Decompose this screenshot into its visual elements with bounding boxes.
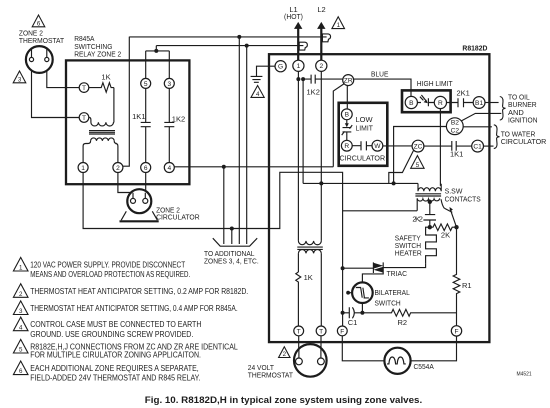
terminal B low limit bbox=[341, 109, 352, 120]
junction dot SSW secondary bbox=[428, 200, 432, 204]
svg-text:FOR MULTIPLE CIRULATOR ZONING: FOR MULTIPLE CIRULATOR ZONING APPLICAITO… bbox=[30, 350, 201, 359]
L1 arrow bbox=[294, 22, 302, 29]
label L1 (HOT) bbox=[284, 5, 303, 21]
svg-text:5: 5 bbox=[144, 81, 148, 88]
wire terminal 2 to circulator bbox=[118, 173, 133, 199]
svg-text:2: 2 bbox=[319, 63, 323, 70]
24 volt thermostat bbox=[294, 344, 327, 377]
terminal 2 bbox=[113, 163, 123, 173]
svg-text:B2: B2 bbox=[451, 120, 459, 127]
relay transformer primary bbox=[89, 117, 114, 126]
svg-text:3: 3 bbox=[18, 76, 22, 83]
note 6 marker bbox=[13, 361, 28, 375]
wire ZC down to safety feed bbox=[389, 150, 414, 183]
brace to water circulator bbox=[494, 125, 500, 149]
label LOW LIMIT bbox=[356, 115, 374, 133]
triac Q1 bbox=[373, 262, 383, 273]
terminal B1 bbox=[473, 97, 485, 109]
svg-text:L2: L2 bbox=[317, 5, 325, 14]
svg-text:2: 2 bbox=[283, 351, 287, 358]
svg-text:2K1: 2K1 bbox=[457, 89, 470, 98]
svg-text:R1: R1 bbox=[462, 281, 472, 290]
label ZONE 2 CIRCULATOR bbox=[156, 206, 200, 222]
resistor 2K bbox=[430, 224, 457, 240]
terminal R high limit bbox=[434, 96, 446, 108]
triangle note marker 6 bbox=[32, 15, 45, 27]
junction dot on ZR return bbox=[222, 165, 226, 169]
wire 1K to transformer primary bbox=[113, 88, 115, 123]
svg-text:LIMIT: LIMIT bbox=[356, 124, 374, 133]
wire F right to C554A bbox=[411, 336, 457, 361]
wire secondary to terminal 2 bbox=[114, 141, 118, 163]
wire zones tap 4 bbox=[246, 46, 248, 244]
terminal 1 R8182D bbox=[293, 60, 304, 71]
svg-text:R8182D: R8182D bbox=[462, 43, 488, 52]
junction dot C1 rail bbox=[341, 311, 345, 315]
bilateral switch bbox=[352, 282, 373, 303]
wire 120V branch lower bbox=[156, 46, 303, 51]
triangle note marker 2 bbox=[279, 347, 290, 358]
relay ZC bbox=[412, 140, 424, 152]
junction dot switch arm bbox=[454, 225, 458, 229]
svg-text:TRIAC: TRIAC bbox=[387, 269, 408, 278]
wire main to C1 cap bbox=[342, 268, 344, 326]
junction dot Y1 B2C2 bbox=[392, 181, 396, 185]
contact 1K1 bbox=[132, 78, 151, 162]
note 1 text bbox=[30, 261, 190, 280]
svg-text:1: 1 bbox=[19, 265, 23, 272]
svg-text:CONTROL CASE MUST BE CONNECTED: CONTROL CASE MUST BE CONNECTED TO EARTH bbox=[30, 320, 201, 329]
heat element C554A bbox=[384, 348, 410, 374]
junction dots terminal 1 bbox=[296, 77, 300, 81]
svg-text:2: 2 bbox=[116, 165, 120, 172]
wire ZR diagonal to zone return bbox=[333, 84, 344, 167]
junction dot main and triac wire bbox=[341, 266, 345, 270]
svg-text:2K2: 2K2 bbox=[412, 215, 423, 224]
wire terminal 6 to circulator bbox=[145, 173, 147, 199]
note 5 text bbox=[30, 342, 238, 359]
relay transformer core bbox=[89, 131, 115, 134]
contact 1K2 bbox=[164, 78, 185, 162]
wire terminal 5 feed bbox=[146, 51, 170, 79]
low limit box bbox=[339, 103, 388, 166]
brace to oil burner bbox=[500, 97, 506, 121]
svg-text:IGNITION: IGNITION bbox=[508, 116, 538, 125]
svg-text:Fig. 10. R8182D,H in typical z: Fig. 10. R8182D,H in typical zone system… bbox=[145, 395, 422, 406]
terminal W low limit bbox=[372, 140, 383, 151]
svg-text:2: 2 bbox=[19, 291, 23, 298]
svg-text:3: 3 bbox=[19, 308, 23, 315]
terminal F right bbox=[451, 326, 461, 336]
resistor R1 bbox=[453, 227, 471, 326]
svg-text:MEANS AND OVERLOAD PROTECTION: MEANS AND OVERLOAD PROTECTION AS REQUIRE… bbox=[30, 270, 190, 279]
wire zones tap 1 bbox=[223, 167, 225, 244]
wire secondary right leg bbox=[320, 253, 322, 326]
note 6 text bbox=[30, 364, 200, 383]
relay transformer secondary bbox=[91, 138, 115, 141]
label TO OIL BURNER AND IGNITION bbox=[508, 93, 538, 125]
zone 2 thermostat bbox=[26, 46, 53, 73]
junction dot branch upper bbox=[237, 35, 241, 39]
disconnect plug on L1 bbox=[299, 42, 307, 50]
svg-text:CONTACTS: CONTACTS bbox=[445, 194, 481, 203]
wire SSW secondary left to loop bbox=[416, 199, 418, 211]
triangle note marker 3 bbox=[13, 71, 26, 83]
svg-text:ZC: ZC bbox=[414, 144, 423, 151]
transformer 24V secondary bbox=[298, 250, 321, 254]
terminal T lower bbox=[79, 113, 89, 123]
L2 arrow bbox=[317, 22, 325, 29]
wire C1 to water circulator bbox=[484, 145, 494, 147]
wire secondary to terminal 1 bbox=[83, 141, 91, 163]
svg-text:1: 1 bbox=[81, 165, 85, 172]
label TO ADDITIONAL ZONES 3 4 ETC bbox=[204, 249, 259, 265]
label R845A SWITCHING RELAY ZONE 2 bbox=[74, 34, 121, 59]
note 4 marker bbox=[13, 317, 28, 331]
svg-text:THERMOSTAT HEAT ANTICIPATOR SE: THERMOSTAT HEAT ANTICIPATOR SETTING, 0.4… bbox=[30, 304, 238, 313]
svg-text:SWITCH: SWITCH bbox=[375, 298, 401, 307]
relay ZR bbox=[343, 75, 354, 86]
junction dot bilateral stub bbox=[346, 291, 350, 295]
svg-text:1K1: 1K1 bbox=[132, 112, 145, 121]
wire B2 diagonal to oil burner bbox=[462, 113, 502, 120]
svg-text:4: 4 bbox=[167, 165, 171, 172]
wire terminal 1 down to zones bus bbox=[83, 173, 269, 229]
junction dot above terminals 5 3 bbox=[154, 49, 158, 53]
high limit box bbox=[402, 90, 451, 112]
SSW switch arm bbox=[441, 199, 457, 227]
svg-text:120 VAC POWER SUPPLY. PROVIDE: 120 VAC POWER SUPPLY. PROVIDE DISCONNECT bbox=[30, 261, 185, 270]
contact R-W low limit bbox=[352, 141, 372, 150]
svg-text:B1: B1 bbox=[475, 100, 483, 107]
note 5 marker bbox=[13, 339, 28, 353]
svg-text:1K: 1K bbox=[304, 273, 313, 282]
svg-text:1K1: 1K1 bbox=[450, 150, 463, 159]
capacitor C1 bbox=[343, 307, 363, 327]
svg-text:2K: 2K bbox=[441, 231, 450, 240]
label ZONE 2 THERMOSTAT bbox=[19, 29, 65, 45]
svg-text:B: B bbox=[409, 100, 414, 107]
svg-text:F: F bbox=[454, 328, 458, 335]
svg-text:C554A: C554A bbox=[414, 362, 434, 371]
svg-text:6: 6 bbox=[37, 20, 41, 27]
wire G to ground bbox=[257, 66, 276, 76]
svg-text:ZONES 3, 4, ETC.: ZONES 3, 4, ETC. bbox=[204, 256, 259, 265]
L2 feed wire bbox=[320, 29, 322, 61]
svg-text:C1: C1 bbox=[348, 318, 358, 327]
aquastat contact low limit bbox=[342, 120, 353, 141]
svg-text:4: 4 bbox=[19, 324, 23, 331]
contact 1K2 R8182D bbox=[303, 75, 343, 97]
wire T leads to thermostat bbox=[299, 336, 321, 358]
svg-text:4: 4 bbox=[256, 91, 260, 98]
safety loop top wire bbox=[343, 210, 418, 212]
wire terminal 2 down to transformer bbox=[320, 71, 322, 241]
transformer 24V core bbox=[297, 247, 323, 249]
earth ground bbox=[251, 76, 263, 82]
svg-text:W: W bbox=[374, 143, 381, 150]
svg-text:THERMOSTAT: THERMOSTAT bbox=[248, 371, 294, 380]
zone 2 circulator bbox=[120, 189, 159, 221]
note 3 marker bbox=[13, 301, 28, 315]
wire B1 to oil burner bbox=[485, 102, 499, 104]
zones bus riser to triac loop bbox=[269, 172, 343, 268]
wire ZR down to low limit B bbox=[346, 86, 348, 109]
svg-text:6: 6 bbox=[19, 368, 23, 375]
terminal B2 C2 bbox=[446, 118, 463, 135]
svg-text:EACH ADDITIONAL ZONE REQUIRES: EACH ADDITIONAL ZONE REQUIRES A SEPARATE… bbox=[30, 364, 199, 373]
terminal 6 bbox=[141, 163, 151, 173]
svg-text:GROUND. USE GROUNDING SCREW PR: GROUND. USE GROUNDING SCREW PROVIDED. bbox=[30, 330, 193, 339]
terminal 5 bbox=[141, 78, 151, 88]
R8182D case box bbox=[269, 54, 489, 342]
SSW transformer core bbox=[415, 194, 441, 196]
label TO WATER CIRCULATOR bbox=[501, 130, 547, 146]
svg-text:1K2: 1K2 bbox=[307, 88, 320, 97]
junction dot bilateral rail bbox=[360, 311, 364, 315]
wire F drop to C554A bbox=[342, 336, 384, 361]
triangle note marker 4 bbox=[251, 86, 264, 99]
relay R845A box bbox=[66, 60, 189, 184]
terminal T right bbox=[316, 326, 326, 336]
aquastat contact high limit bbox=[417, 95, 434, 106]
label BILATERAL SWITCH bbox=[375, 288, 410, 307]
resistor 1K R8182D bbox=[296, 272, 313, 326]
svg-text:R2: R2 bbox=[398, 318, 408, 327]
resistor R2 bbox=[362, 309, 456, 327]
svg-text:5: 5 bbox=[19, 347, 23, 354]
svg-text:CIRCULATOR: CIRCULATOR bbox=[340, 154, 386, 163]
wire terminal 4 to ZR return bbox=[174, 166, 333, 168]
terminal T left bbox=[294, 326, 304, 336]
svg-text:T: T bbox=[82, 115, 86, 122]
wire terminal 1 down to transformer bbox=[297, 79, 299, 241]
wire B2C2 left to safety feed bbox=[394, 127, 447, 184]
transformer 24V primary bbox=[298, 241, 321, 245]
terminal C1 bbox=[472, 140, 484, 152]
svg-text:1: 1 bbox=[337, 22, 341, 29]
svg-text:F: F bbox=[340, 328, 344, 335]
wire thermostat right lead to T bbox=[47, 62, 79, 88]
label S.SW CONTACTS bbox=[445, 187, 481, 204]
svg-text:HEATER: HEATER bbox=[395, 249, 423, 258]
terminal R low limit bbox=[341, 140, 352, 151]
svg-text:HIGH LIMIT: HIGH LIMIT bbox=[417, 79, 453, 88]
terminal 1 bbox=[78, 163, 88, 173]
junction dot below 2K2 bbox=[428, 225, 432, 229]
contact 2K2 bbox=[412, 202, 436, 227]
resistor 1K heat anticipator bbox=[89, 73, 114, 93]
svg-text:B: B bbox=[345, 112, 350, 119]
note 2 marker bbox=[13, 284, 28, 298]
wire from L2 tap down to terminal 2 bbox=[123, 37, 129, 167]
svg-text:G: G bbox=[278, 64, 283, 71]
wire W to ZC bbox=[383, 145, 412, 147]
svg-text:BLUE: BLUE bbox=[371, 70, 388, 79]
contact 2K1 bbox=[447, 89, 474, 108]
svg-text:(HOT): (HOT) bbox=[284, 12, 303, 21]
note 4 text bbox=[30, 320, 201, 339]
svg-text:ZR: ZR bbox=[344, 78, 353, 85]
wire bilateral to rail bbox=[361, 303, 363, 313]
label SAFETY SWITCH HEATER bbox=[395, 234, 423, 258]
SSW transformer primary bbox=[418, 183, 441, 191]
triangle note marker 1 bbox=[332, 17, 345, 29]
svg-text:T: T bbox=[82, 85, 86, 92]
terminal 4 bbox=[164, 163, 174, 173]
wire zones tap 2 bbox=[231, 229, 233, 245]
svg-text:THERMOSTAT: THERMOSTAT bbox=[19, 36, 65, 45]
wire BLUE ZR to high limit B bbox=[354, 79, 411, 96]
contact 1K1 R8182D bbox=[424, 141, 472, 159]
junction dot branch lower bbox=[245, 44, 249, 48]
disconnect plug on L2 bbox=[322, 34, 330, 42]
svg-text:1K2: 1K2 bbox=[172, 114, 185, 123]
wire high limit R down to SSW primary bbox=[439, 109, 441, 186]
svg-text:1K: 1K bbox=[101, 73, 110, 82]
svg-text:5: 5 bbox=[416, 162, 420, 169]
svg-text:C1: C1 bbox=[473, 144, 482, 151]
wire 120V branch upper bbox=[129, 36, 326, 38]
wire B2C2 to water circulator bbox=[463, 126, 492, 128]
svg-text:CIRCULATOR: CIRCULATOR bbox=[156, 213, 200, 222]
L1 feed wire bbox=[297, 29, 299, 61]
svg-text:C2: C2 bbox=[451, 128, 460, 135]
terminal T upper bbox=[79, 83, 89, 93]
svg-text:1: 1 bbox=[297, 63, 301, 70]
wire bilateral stub bbox=[348, 292, 352, 294]
wire junction down to safety feed bbox=[302, 79, 304, 183]
wire thermostat left lead to T bbox=[32, 62, 80, 118]
wire heater to triac bbox=[383, 263, 425, 267]
SSW transformer secondary bbox=[417, 198, 440, 201]
terminal F left bbox=[337, 326, 347, 336]
label 24 VOLT THERMOSTAT bbox=[248, 363, 294, 380]
svg-text:FIELD-ADDED 24V THERMOSTAT AND: FIELD-ADDED 24V THERMOSTAT AND R845 RELA… bbox=[30, 374, 200, 383]
wire triac gate to bilateral switch bbox=[362, 273, 383, 282]
terminal 2 R8182D bbox=[316, 60, 327, 71]
terminal 3 bbox=[164, 78, 174, 88]
additional zones funnel bbox=[213, 238, 257, 246]
svg-text:THERMOSTAT HEAT ANTICIPATOR SE: THERMOSTAT HEAT ANTICIPATOR SETTING, 0.2… bbox=[30, 287, 248, 296]
wire zones tap 3 bbox=[238, 37, 240, 244]
triangle note marker 5 bbox=[411, 156, 424, 169]
wire secondary left leg bbox=[297, 253, 299, 272]
svg-text:M4521: M4521 bbox=[517, 372, 532, 378]
svg-text:3: 3 bbox=[167, 81, 171, 88]
svg-text:BILATERAL: BILATERAL bbox=[375, 288, 410, 297]
safety feed bus Y1 bbox=[303, 182, 418, 184]
junction dot on zones bus bbox=[230, 227, 234, 231]
svg-text:R: R bbox=[344, 143, 349, 150]
wire terminal 1 to junction bbox=[297, 71, 299, 79]
junction dot Y1 transformer bbox=[319, 181, 323, 185]
svg-text:T: T bbox=[297, 328, 301, 335]
svg-text:T: T bbox=[319, 328, 323, 335]
terminal G bbox=[275, 61, 286, 72]
svg-text:R: R bbox=[438, 100, 443, 107]
terminal B high limit bbox=[405, 96, 417, 108]
wire to triac bbox=[343, 267, 374, 269]
safety switch heater element bbox=[426, 227, 437, 263]
svg-text:6: 6 bbox=[144, 165, 148, 172]
note 1 marker bbox=[13, 257, 28, 271]
svg-text:RELAY ZONE 2: RELAY ZONE 2 bbox=[74, 50, 121, 59]
svg-text:CIRCULATOR: CIRCULATOR bbox=[501, 137, 547, 146]
